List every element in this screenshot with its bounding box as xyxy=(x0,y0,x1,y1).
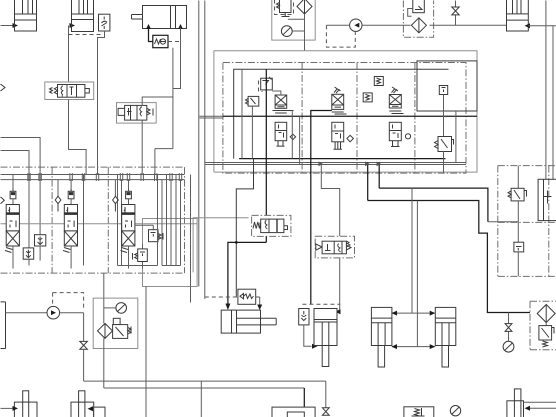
step wire into cylinder F left xyxy=(236,159,253,298)
pump suction line xyxy=(327,24,350,26)
check valve unit C1 xyxy=(99,14,110,31)
wire check CB2 to cyl G bottom xyxy=(304,325,312,346)
wire into cyl G top right xyxy=(339,258,340,312)
valve LV3 stack xyxy=(121,190,135,253)
gray return buses xyxy=(205,163,466,165)
internal dash partition xyxy=(498,221,556,223)
wire 299 xyxy=(299,116,301,165)
arrow into cyl F right port xyxy=(257,305,262,311)
arrows cross top xyxy=(392,311,436,316)
filter unit box xyxy=(93,298,138,348)
wire check box to cyl F right port xyxy=(259,297,261,306)
main return through filter xyxy=(103,298,105,388)
cylinder E top-right xyxy=(507,0,529,31)
cylinder B xyxy=(72,0,94,32)
return drop verticals xyxy=(158,175,191,303)
cylinder I bottom right xyxy=(507,389,524,417)
wire RB1 down xyxy=(517,252,519,277)
solid box right xyxy=(538,179,556,220)
SECTION: bottom right xyxy=(1,301,556,417)
partition A xyxy=(301,63,303,174)
bus line P xyxy=(1,174,185,176)
partition B xyxy=(356,63,358,174)
main pressure bus xyxy=(223,115,477,117)
cylinder G xyxy=(314,309,337,367)
pump P2 suction line xyxy=(6,312,48,314)
arrow into cyl D right port xyxy=(178,24,183,29)
wire box SB3 to relief xyxy=(443,95,445,137)
cylinder H2b xyxy=(435,307,456,367)
thick line A to right xyxy=(379,163,488,222)
gray enclosure of central system xyxy=(214,51,477,172)
valve LV1 stack xyxy=(5,190,19,253)
dash-dot border central manifold xyxy=(223,63,466,174)
wire valve V2 bottom down xyxy=(142,120,173,174)
arrow into cylinder I xyxy=(525,406,531,411)
wire feeds valve LV3 xyxy=(115,175,128,266)
gray enclosure bottom xyxy=(214,111,477,172)
pump P2 discharge xyxy=(60,312,84,314)
bottom center box xyxy=(272,407,315,417)
SECTION: central manifold xyxy=(200,61,531,347)
wire from check unit down xyxy=(98,31,105,175)
gauge G4 xyxy=(450,406,460,416)
manifold to filter drop xyxy=(103,273,105,298)
arrow into BL1 xyxy=(13,406,19,411)
cross line bottom between H2a H2b xyxy=(392,346,435,348)
thick line B xyxy=(368,163,530,313)
return filter unit box xyxy=(272,0,315,40)
shutoff drop xyxy=(325,381,327,407)
aux box LA3 with spring xyxy=(135,225,163,241)
dashed pilot line from valve V-D xyxy=(168,41,181,43)
cross line top between H2a H2b xyxy=(392,312,435,314)
dashed border around relief R-T xyxy=(275,0,294,15)
wire cylinder B port xyxy=(68,26,70,83)
relief valve RV1 xyxy=(246,96,259,106)
bus bottom 1 xyxy=(84,380,326,382)
manifold dash-dot border xyxy=(1,167,185,273)
valve bottom drops xyxy=(13,246,181,269)
junction arrows on buses xyxy=(319,162,382,167)
shutoff valve SV2 xyxy=(80,341,88,349)
bottom left cylinder BL2 xyxy=(71,391,105,417)
inner block outline xyxy=(234,69,449,158)
wire cylinder E right xyxy=(528,25,556,27)
wire cylinder feed 416 xyxy=(416,201,418,347)
junction dot xyxy=(235,241,238,244)
wire feeds valve LV2 xyxy=(58,175,84,266)
relief valve RV-R xyxy=(508,166,527,201)
arrow into cyl F left port xyxy=(225,304,230,311)
filter diamond F2 xyxy=(98,323,113,338)
pump P1 xyxy=(350,19,362,31)
aux box LA1 xyxy=(35,235,46,246)
filter diamond F-T xyxy=(297,0,312,14)
wire valve H1 through xyxy=(228,236,266,306)
left wire L1 xyxy=(1,138,41,235)
long verticals to lower-left area xyxy=(199,1,205,299)
partition C xyxy=(414,63,416,174)
top filter assembly dash-dot box xyxy=(403,1,433,38)
aux box LA4 xyxy=(133,244,148,269)
bottom left cylinder BL1 xyxy=(14,391,37,417)
bus bottom 2 xyxy=(104,387,304,389)
reservoir dashed box under pump xyxy=(326,25,355,47)
gray mid line xyxy=(1,223,198,225)
wire from solid box down xyxy=(455,111,457,163)
diamond arrow at edge xyxy=(1,197,5,204)
solenoid marks CV2 xyxy=(334,87,341,93)
small box SB3 xyxy=(439,86,447,95)
gray box lower right xyxy=(143,219,198,287)
arrow into cylinder A xyxy=(13,23,19,28)
SECTION: bottom center xyxy=(84,159,456,417)
arrows cross bottom xyxy=(392,344,436,349)
SECTION: top-center xyxy=(214,0,527,172)
wire valve V1 bottom xyxy=(69,100,87,175)
SECTION: right manifold xyxy=(498,166,556,277)
relief valve R-T with spring xyxy=(277,0,292,17)
bus crossing ticks xyxy=(28,173,182,181)
valve V-D (pilot check) xyxy=(153,35,168,47)
valve V2 horizontal xyxy=(117,103,157,124)
shutoff valve SV4 xyxy=(505,324,512,332)
wire valve V2 top feed xyxy=(142,28,180,149)
gauge G-T xyxy=(281,26,304,37)
manifold partition 1 xyxy=(51,167,53,273)
diamond arrow LV3 xyxy=(113,196,119,211)
valve H1 (pilot check) xyxy=(252,215,291,236)
valve H2 xyxy=(315,236,354,258)
arrow mark at edge xyxy=(1,84,6,91)
arrow into cyl D left port xyxy=(146,24,151,29)
wire CV1 ports xyxy=(291,111,293,159)
cylinder feed 411 xyxy=(411,188,413,313)
discharge drop line xyxy=(83,313,85,381)
long vertical right pair xyxy=(546,1,553,180)
dark drop to bottom box xyxy=(303,388,305,417)
check box CB2 xyxy=(299,309,309,325)
feed to check G xyxy=(302,303,340,305)
drop from bus xyxy=(200,381,202,417)
branch to gauge bottom right xyxy=(508,313,510,342)
relief valve RV2 xyxy=(435,137,454,152)
dash-dot border right manifold xyxy=(498,166,556,277)
solid box top right xyxy=(417,61,477,111)
dashed pilot to check box xyxy=(205,296,260,298)
valve V1 horizontal xyxy=(45,82,94,100)
lower thick bus xyxy=(239,158,445,160)
partition right manifold xyxy=(548,166,550,277)
pilot line dark 265 xyxy=(265,69,267,215)
pump discharge line to filter xyxy=(362,24,411,26)
step feed to valve H2 right xyxy=(321,165,339,236)
gauge G3 xyxy=(503,341,514,352)
valve CV2 xyxy=(332,94,354,149)
horizontal cylinder D xyxy=(132,6,187,29)
filter diamond F-P xyxy=(411,18,426,33)
cylinder A xyxy=(15,0,37,31)
arrow into cyl G right xyxy=(335,309,341,314)
left wire L2 xyxy=(1,151,30,248)
gauge G2 xyxy=(104,303,127,314)
wire feeds valve LV1 xyxy=(12,175,14,192)
SECTION: top-left xyxy=(1,0,205,299)
arrow into BL2 xyxy=(88,406,94,411)
small box RB1 xyxy=(514,242,524,252)
wire into BL1 xyxy=(1,407,14,409)
bus line T xyxy=(1,179,185,181)
valve LV2 stack xyxy=(63,190,78,253)
filter to cylinder line xyxy=(430,24,527,26)
valve CV1 xyxy=(272,91,295,146)
relief box above filter xyxy=(413,0,425,13)
gray box drop line xyxy=(145,287,147,417)
manifold partition 2 xyxy=(107,167,109,273)
arrow into cylinder B xyxy=(70,23,76,28)
SECTION: left manifold xyxy=(1,167,249,302)
right filter dash-dot box xyxy=(530,301,556,350)
relief valve RV4 xyxy=(539,323,554,348)
arrow into cylinder E xyxy=(525,23,531,28)
feed line valve H2 xyxy=(311,111,332,305)
cylinder F xyxy=(221,310,276,333)
pilot valve PV1 xyxy=(259,77,273,92)
aux box LA2 xyxy=(23,248,34,259)
wire v-feed 241 xyxy=(241,69,243,158)
wires into cylinder I xyxy=(524,402,556,408)
link relief to drop line xyxy=(288,18,305,20)
wire cyl D left port to valve V-D xyxy=(149,28,153,42)
check valve box CB1 xyxy=(238,289,256,304)
SECTION: top-right xyxy=(507,0,556,179)
shutoff valve SV-T xyxy=(452,1,459,26)
wire relief RV2 down xyxy=(443,152,445,174)
solenoid marks CV3 xyxy=(392,87,399,93)
wire RV-R down xyxy=(517,201,519,242)
wire relief RV1 down xyxy=(251,106,253,159)
gray box 2 xyxy=(193,218,248,273)
pump P2 xyxy=(47,306,60,319)
stub bus left xyxy=(200,116,223,118)
valve CV3 xyxy=(389,95,410,147)
spring box SB2 xyxy=(363,93,372,102)
shutoff valve SV3 xyxy=(322,408,329,416)
spring box SB1 xyxy=(374,77,383,86)
bottom relief box xyxy=(404,407,434,417)
relief valve RV3 xyxy=(113,318,131,338)
dashed drain line xyxy=(69,34,101,36)
bypass loop wire xyxy=(408,9,413,17)
diamond arrow LV2 xyxy=(55,196,61,211)
reservoir dashed box above pump P2 xyxy=(53,293,84,311)
wire into right manifold xyxy=(488,221,518,223)
tank at left edge xyxy=(1,302,6,349)
SECTION: bottom left xyxy=(1,293,138,388)
filter unit outlet drop xyxy=(304,14,306,51)
arrow into cyl G bottom left xyxy=(312,344,318,349)
wire to cylinder A xyxy=(1,25,14,27)
cylinder H2a xyxy=(371,307,392,367)
filter diamond F3 xyxy=(537,305,555,323)
